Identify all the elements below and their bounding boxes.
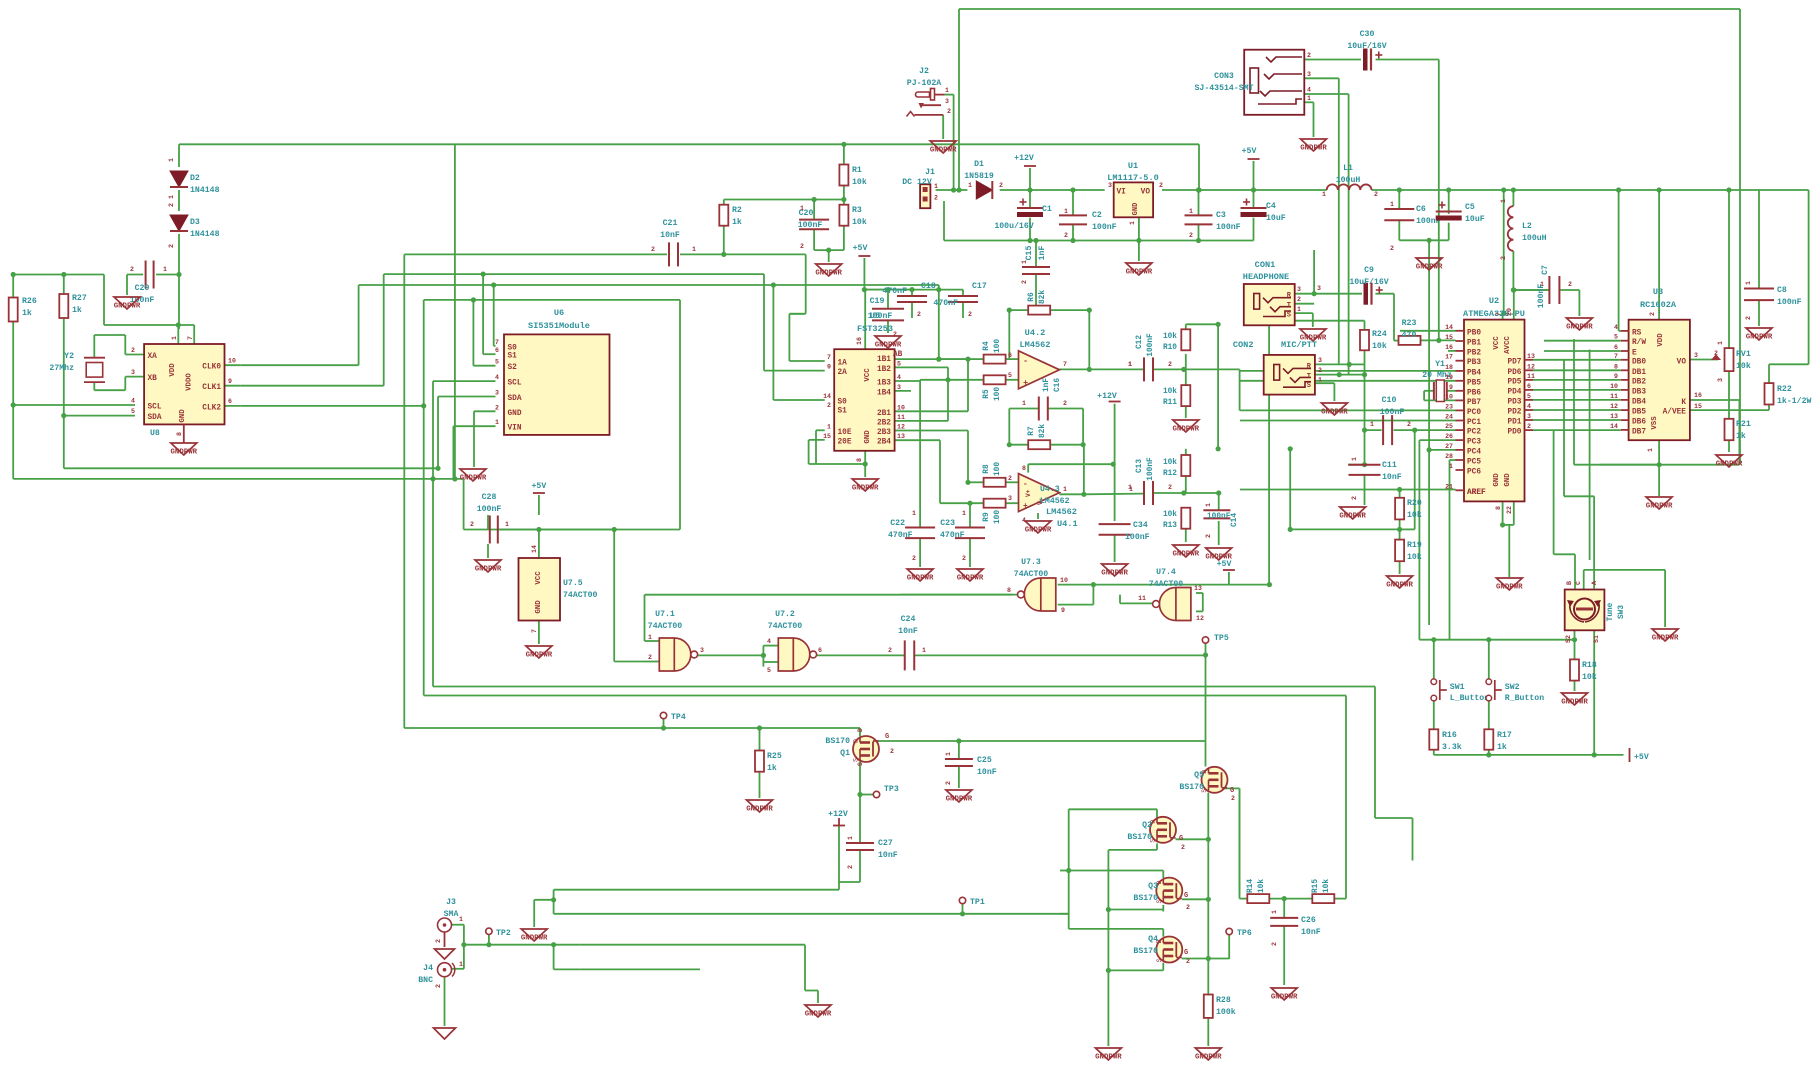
- svg-text:3: 3: [1717, 378, 1724, 382]
- svg-text:SI5351Module: SI5351Module: [528, 321, 590, 331]
- svg-text:R6: R6: [1028, 292, 1036, 302]
- svg-text:CON3: CON3: [1214, 72, 1234, 81]
- svg-text:SDA: SDA: [148, 414, 162, 422]
- svg-text:DB7: DB7: [1632, 428, 1646, 436]
- svg-text:2: 2: [470, 521, 474, 528]
- svg-text:C12: C12: [1136, 335, 1144, 349]
- svg-text:1k: 1k: [767, 763, 777, 773]
- svg-text:GNDPWR: GNDPWR: [1416, 264, 1443, 272]
- svg-text:10k: 10k: [852, 217, 867, 227]
- svg-text:16: 16: [1694, 392, 1702, 399]
- svg-text:CON1: CON1: [1255, 260, 1276, 270]
- svg-text:C11: C11: [1382, 461, 1397, 470]
- svg-text:2: 2: [1714, 350, 1718, 357]
- svg-text:1: 1: [459, 916, 463, 923]
- svg-text:GNDPWR: GNDPWR: [1746, 334, 1773, 342]
- svg-text:20E: 20E: [838, 438, 852, 446]
- svg-text:FST3253: FST3253: [857, 324, 893, 334]
- svg-text:3: 3: [1527, 413, 1531, 420]
- svg-text:VO: VO: [1141, 189, 1151, 197]
- svg-text:1: 1: [1128, 484, 1132, 491]
- svg-text:PD6: PD6: [1507, 369, 1521, 377]
- svg-text:3: 3: [897, 384, 901, 391]
- svg-text:S2: S2: [508, 364, 518, 372]
- svg-text:+5V: +5V: [1242, 147, 1257, 156]
- svg-text:82k: 82k: [1039, 290, 1047, 304]
- svg-text:DB0: DB0: [1632, 358, 1646, 366]
- svg-text:S2: S2: [1565, 635, 1572, 643]
- svg-text:XA: XA: [148, 353, 158, 361]
- svg-text:1nF: 1nF: [1038, 246, 1047, 261]
- svg-text:13: 13: [1527, 353, 1535, 360]
- svg-text:G: G: [1184, 949, 1188, 957]
- svg-text:11: 11: [897, 414, 905, 421]
- svg-text:GNDPWR: GNDPWR: [1271, 994, 1298, 1002]
- svg-text:1: 1: [1271, 910, 1278, 914]
- svg-text:7: 7: [1614, 353, 1618, 360]
- svg-text:2B3: 2B3: [877, 429, 891, 437]
- svg-text:1k: 1k: [1497, 742, 1507, 752]
- svg-text:U1: U1: [1128, 161, 1138, 171]
- svg-text:7: 7: [531, 629, 538, 633]
- svg-text:SDA: SDA: [508, 395, 522, 403]
- svg-text:T: T: [1307, 373, 1311, 381]
- svg-text:2: 2: [1407, 421, 1411, 428]
- svg-text:U7.2: U7.2: [775, 610, 795, 619]
- svg-text:R7: R7: [1028, 426, 1036, 436]
- svg-text:2: 2: [800, 243, 804, 250]
- svg-text:C3: C3: [1216, 211, 1226, 220]
- svg-text:GNDPWR: GNDPWR: [170, 449, 197, 457]
- svg-text:+5V: +5V: [1217, 560, 1232, 569]
- svg-text:2: 2: [648, 654, 652, 661]
- svg-text:Y1: Y1: [1435, 360, 1445, 369]
- svg-text:5: 5: [495, 359, 499, 366]
- svg-text:U4.2: U4.2: [1025, 328, 1046, 338]
- svg-text:D3: D3: [190, 218, 200, 227]
- svg-text:G: G: [1179, 835, 1183, 843]
- svg-text:K: K: [1681, 399, 1686, 407]
- svg-text:8: 8: [1614, 363, 1618, 370]
- svg-text:D: D: [857, 728, 864, 732]
- svg-text:PB4: PB4: [1467, 369, 1481, 377]
- svg-text:TP4: TP4: [671, 713, 686, 722]
- svg-text:L1: L1: [1343, 164, 1353, 173]
- svg-text:U3: U3: [1653, 287, 1663, 297]
- svg-text:9: 9: [1449, 384, 1453, 391]
- svg-text:28: 28: [1445, 453, 1453, 460]
- svg-text:1: 1: [1063, 486, 1067, 493]
- svg-text:+12V: +12V: [1014, 154, 1034, 163]
- svg-text:PD2: PD2: [1507, 409, 1521, 417]
- svg-text:3: 3: [700, 647, 704, 654]
- svg-text:10k: 10k: [852, 177, 867, 187]
- svg-text:VCC: VCC: [535, 571, 543, 585]
- svg-text:R23: R23: [1402, 319, 1417, 328]
- svg-text:100uH: 100uH: [1522, 234, 1547, 243]
- svg-text:-: -: [1023, 481, 1028, 489]
- svg-text:1: 1: [847, 836, 854, 840]
- svg-text:J3: J3: [446, 898, 456, 907]
- svg-text:100nF: 100nF: [1207, 513, 1231, 521]
- svg-text:1: 1: [1318, 377, 1322, 384]
- svg-text:4: 4: [897, 374, 901, 381]
- svg-text:RV1: RV1: [1736, 350, 1751, 359]
- svg-text:2: 2: [1318, 367, 1322, 374]
- svg-text:PD5: PD5: [1507, 378, 1521, 386]
- svg-text:1: 1: [968, 182, 972, 189]
- svg-text:2: 2: [1231, 795, 1235, 802]
- svg-text:10E: 10E: [838, 429, 852, 437]
- svg-text:+12V: +12V: [1097, 392, 1117, 401]
- svg-text:GND: GND: [1493, 473, 1501, 487]
- svg-text:Q1: Q1: [840, 749, 850, 758]
- svg-text:10nF: 10nF: [1301, 928, 1321, 937]
- svg-text:4: 4: [1307, 87, 1311, 94]
- svg-text:R27: R27: [72, 294, 87, 303]
- svg-text:1: 1: [1189, 208, 1193, 215]
- svg-text:1k: 1k: [22, 308, 32, 318]
- svg-text:J4: J4: [423, 964, 433, 973]
- svg-text:10uF: 10uF: [1266, 214, 1286, 223]
- svg-text:+: +: [1023, 378, 1028, 388]
- svg-text:7: 7: [827, 354, 831, 361]
- svg-text:GNDPWR: GNDPWR: [1025, 527, 1052, 535]
- svg-text:2: 2: [1374, 191, 1378, 198]
- svg-text:C4: C4: [1266, 202, 1276, 211]
- svg-text:2: 2: [1297, 296, 1301, 303]
- svg-text:1: 1: [168, 195, 175, 199]
- svg-text:1: 1: [692, 246, 696, 253]
- svg-text:2: 2: [1271, 942, 1278, 946]
- svg-text:R4: R4: [983, 341, 991, 351]
- svg-text:GNDPWR: GNDPWR: [852, 485, 879, 493]
- svg-text:GNDPWR: GNDPWR: [1321, 409, 1348, 417]
- svg-text:GNDPWR: GNDPWR: [1652, 635, 1679, 643]
- svg-text:PD7: PD7: [1507, 358, 1521, 366]
- svg-text:AVCC: AVCC: [1504, 336, 1512, 354]
- svg-text:2: 2: [1649, 312, 1656, 316]
- svg-text:11: 11: [1527, 373, 1535, 380]
- svg-text:DB2: DB2: [1632, 378, 1646, 386]
- svg-text:1: 1: [1449, 463, 1453, 470]
- svg-text:R3: R3: [852, 206, 862, 215]
- svg-text:12: 12: [1196, 615, 1204, 622]
- svg-text:5: 5: [1527, 393, 1531, 400]
- svg-text:13: 13: [1194, 585, 1202, 592]
- svg-text:T: T: [1287, 302, 1291, 310]
- svg-text:GND: GND: [179, 409, 187, 423]
- svg-text:GNDPWR: GNDPWR: [930, 147, 957, 155]
- svg-text:100: 100: [994, 510, 1002, 524]
- svg-text:A/VEE: A/VEE: [1663, 409, 1687, 417]
- svg-text:GNDPWR: GNDPWR: [1126, 269, 1153, 277]
- svg-text:2: 2: [1159, 182, 1163, 189]
- svg-text:C21: C21: [663, 219, 678, 228]
- svg-text:C29: C29: [135, 284, 150, 293]
- svg-text:100nF: 100nF: [1147, 333, 1155, 357]
- svg-text:GNDPWR: GNDPWR: [1646, 503, 1673, 511]
- svg-text:3: 3: [1297, 286, 1301, 293]
- svg-text:2: 2: [1205, 534, 1212, 538]
- svg-text:GNDPWR: GNDPWR: [946, 796, 973, 804]
- svg-text:PC6: PC6: [1467, 469, 1481, 477]
- svg-text:PC2: PC2: [1467, 429, 1481, 437]
- svg-text:2: 2: [1189, 232, 1193, 239]
- svg-text:S0: S0: [838, 399, 848, 407]
- svg-text:G: G: [1230, 787, 1234, 795]
- svg-text:R15: R15: [1312, 879, 1320, 893]
- svg-text:1: 1: [1297, 306, 1301, 313]
- svg-text:74ACT00: 74ACT00: [648, 622, 682, 631]
- svg-text:1N5819: 1N5819: [964, 172, 994, 181]
- svg-text:14: 14: [1445, 324, 1453, 331]
- svg-text:8: 8: [856, 458, 863, 462]
- svg-text:1: 1: [1500, 199, 1507, 203]
- svg-text:SCL: SCL: [508, 380, 522, 388]
- svg-text:2: 2: [1021, 280, 1028, 284]
- svg-text:3: 3: [1318, 357, 1322, 364]
- svg-text:4: 4: [1527, 403, 1531, 410]
- svg-text:19: 19: [1445, 374, 1453, 381]
- svg-text:1: 1: [1540, 281, 1544, 288]
- svg-text:2: 2: [1186, 904, 1190, 911]
- svg-text:C15: C15: [1025, 246, 1034, 261]
- svg-text:SJ-43514-SMT: SJ-43514-SMT: [1195, 84, 1254, 93]
- svg-text:-: -: [1023, 356, 1028, 366]
- svg-text:10k: 10k: [1407, 510, 1422, 520]
- svg-text:3: 3: [1108, 182, 1112, 189]
- svg-text:22: 22: [1506, 506, 1513, 514]
- svg-text:GNDPWR: GNDPWR: [1300, 145, 1327, 153]
- svg-text:E: E: [1632, 350, 1637, 358]
- svg-text:2: 2: [888, 647, 892, 654]
- svg-text:100nF: 100nF: [1125, 533, 1150, 542]
- svg-text:R26: R26: [22, 297, 37, 306]
- svg-text:GNDPWR: GNDPWR: [815, 270, 842, 278]
- svg-text:15: 15: [1445, 334, 1453, 341]
- svg-text:3: 3: [1307, 71, 1311, 78]
- svg-text:C17: C17: [972, 282, 987, 291]
- svg-text:470nF: 470nF: [882, 287, 907, 296]
- svg-text:1k-1/2W: 1k-1/2W: [1777, 396, 1811, 406]
- svg-text:2: 2: [1745, 316, 1752, 320]
- svg-text:2: 2: [962, 555, 966, 562]
- svg-text:GNDPWR: GNDPWR: [1195, 1054, 1222, 1062]
- svg-text:3: 3: [945, 98, 949, 105]
- svg-text:S: S: [1156, 958, 1163, 962]
- svg-text:Q5: Q5: [1194, 771, 1204, 780]
- svg-text:S: S: [857, 762, 864, 766]
- svg-text:27: 27: [1445, 443, 1453, 450]
- svg-text:S: S: [1287, 312, 1291, 320]
- svg-text:18: 18: [1445, 364, 1453, 371]
- svg-text:GNDPWR: GNDPWR: [1566, 324, 1593, 332]
- svg-text:2: 2: [1181, 844, 1185, 851]
- svg-text:R25: R25: [767, 752, 782, 761]
- svg-text:1B2: 1B2: [877, 366, 891, 374]
- svg-text:R2: R2: [732, 206, 742, 215]
- svg-text:1: 1: [1021, 260, 1028, 264]
- svg-text:14: 14: [823, 393, 831, 400]
- svg-text:1: 1: [912, 510, 916, 517]
- svg-text:1: 1: [945, 87, 949, 94]
- svg-text:1N4148: 1N4148: [190, 186, 220, 195]
- svg-text:U4.3: U4.3: [1040, 485, 1060, 494]
- svg-text:DB3: DB3: [1632, 388, 1646, 396]
- svg-text:U8: U8: [150, 429, 160, 438]
- svg-text:U2: U2: [1489, 296, 1499, 306]
- svg-text:C8: C8: [1777, 286, 1787, 295]
- svg-text:8: 8: [1007, 587, 1011, 594]
- svg-text:1A: 1A: [838, 360, 848, 368]
- svg-text:BS170: BS170: [1127, 833, 1152, 842]
- svg-text:VDD: VDD: [1657, 333, 1665, 347]
- svg-text:10nF: 10nF: [878, 851, 898, 860]
- svg-text:2: 2: [1064, 232, 1068, 239]
- svg-text:BS170: BS170: [825, 737, 850, 746]
- svg-text:1: 1: [1717, 341, 1724, 345]
- svg-text:2: 2: [827, 402, 831, 409]
- svg-text:B: B: [1566, 581, 1573, 585]
- svg-text:1: 1: [1351, 457, 1358, 461]
- svg-text:GNDPWR: GNDPWR: [875, 342, 902, 350]
- svg-text:C24: C24: [901, 615, 916, 624]
- svg-text:R28: R28: [1216, 996, 1231, 1005]
- svg-text:12: 12: [897, 424, 905, 431]
- svg-text:1: 1: [945, 752, 952, 756]
- svg-text:5: 5: [1614, 334, 1618, 341]
- svg-text:10nF: 10nF: [660, 231, 680, 240]
- svg-text:1: 1: [1205, 503, 1212, 507]
- svg-text:1: 1: [934, 183, 938, 190]
- svg-text:C14: C14: [1231, 513, 1239, 527]
- svg-text:4: 4: [1614, 324, 1618, 331]
- svg-text:1: 1: [1022, 400, 1026, 407]
- svg-text:S1: S1: [1593, 635, 1600, 643]
- svg-text:4: 4: [767, 638, 771, 645]
- svg-text:2: 2: [847, 865, 854, 869]
- svg-text:2: 2: [1307, 52, 1311, 59]
- svg-text:25: 25: [1445, 423, 1453, 430]
- svg-text:8: 8: [1495, 506, 1502, 510]
- svg-text:10: 10: [897, 404, 905, 411]
- svg-text:L2: L2: [1522, 222, 1532, 231]
- svg-text:10k: 10k: [1372, 341, 1387, 351]
- svg-text:10uF/16V: 10uF/16V: [1347, 41, 1386, 51]
- svg-text:GNDPWR: GNDPWR: [521, 935, 548, 943]
- svg-text:S1: S1: [508, 353, 518, 361]
- svg-text:C: C: [1575, 581, 1582, 585]
- svg-text:SCL: SCL: [148, 404, 162, 412]
- svg-text:PD1: PD1: [1507, 419, 1521, 427]
- svg-text:6: 6: [228, 398, 232, 405]
- svg-text:U7.3: U7.3: [1021, 558, 1041, 567]
- svg-text:8: 8: [176, 432, 183, 436]
- svg-text:12: 12: [1527, 363, 1535, 370]
- svg-text:1: 1: [168, 158, 175, 162]
- svg-text:2: 2: [435, 984, 442, 988]
- svg-text:1: 1: [1390, 201, 1394, 208]
- svg-text:1k: 1k: [72, 305, 82, 315]
- svg-text:2: 2: [168, 244, 175, 248]
- svg-text:AREF: AREF: [1467, 489, 1486, 497]
- svg-text:10: 10: [1610, 383, 1618, 390]
- svg-text:20: 20: [1506, 308, 1513, 316]
- svg-text:PC5: PC5: [1467, 459, 1481, 467]
- svg-text:10: 10: [1060, 577, 1068, 584]
- svg-text:1: 1: [922, 647, 926, 654]
- svg-text:XB: XB: [148, 375, 158, 383]
- svg-text:R11: R11: [1163, 399, 1177, 407]
- svg-text:7: 7: [187, 336, 194, 340]
- svg-text:1: 1: [1322, 191, 1326, 198]
- svg-text:GNDPWR: GNDPWR: [1172, 551, 1199, 559]
- svg-text:24: 24: [1445, 414, 1453, 421]
- svg-text:C1: C1: [1042, 205, 1052, 214]
- svg-text:GNDPWR: GNDPWR: [1716, 461, 1743, 469]
- svg-text:GNDPWR: GNDPWR: [907, 575, 934, 583]
- svg-text:VI: VI: [1117, 189, 1127, 197]
- svg-text:R9: R9: [983, 512, 991, 522]
- svg-text:R16: R16: [1442, 731, 1457, 740]
- svg-text:TP2: TP2: [496, 929, 511, 938]
- svg-text:10: 10: [228, 358, 236, 365]
- svg-text:GNDPWR: GNDPWR: [114, 303, 141, 311]
- svg-text:100: 100: [994, 462, 1002, 476]
- svg-text:D: D: [853, 739, 860, 743]
- svg-text:HEADPHONE: HEADPHONE: [1243, 272, 1289, 282]
- svg-text:C19: C19: [870, 297, 885, 306]
- svg-text:PB5: PB5: [1467, 379, 1481, 387]
- svg-text:PD3: PD3: [1507, 398, 1521, 406]
- svg-text:C9: C9: [1364, 266, 1374, 275]
- svg-text:1: 1: [163, 266, 167, 273]
- svg-text:21: 21: [1445, 483, 1453, 490]
- svg-text:100k: 100k: [1216, 1007, 1236, 1017]
- svg-text:10k: 10k: [1163, 333, 1177, 341]
- svg-text:S0: S0: [508, 344, 518, 352]
- svg-text:C22: C22: [890, 519, 905, 528]
- svg-text:9: 9: [1614, 373, 1618, 380]
- svg-text:BS170: BS170: [1133, 894, 1158, 903]
- svg-text:R21: R21: [1736, 420, 1751, 429]
- svg-text:D2: D2: [190, 174, 200, 183]
- svg-text:D1: D1: [974, 160, 984, 169]
- svg-text:PB6: PB6: [1467, 389, 1481, 397]
- svg-text:2B1: 2B1: [877, 410, 891, 418]
- svg-text:J1: J1: [925, 168, 935, 177]
- svg-text:GNDPWR: GNDPWR: [805, 1011, 832, 1019]
- svg-text:14: 14: [531, 545, 538, 553]
- svg-text:100nF: 100nF: [868, 312, 893, 321]
- svg-text:PB1: PB1: [1467, 340, 1481, 348]
- svg-text:5: 5: [897, 360, 901, 367]
- svg-text:100nF: 100nF: [1380, 408, 1405, 417]
- svg-text:5: 5: [131, 408, 135, 415]
- svg-text:PJ-102A: PJ-102A: [907, 79, 941, 88]
- svg-text:DC 12V: DC 12V: [902, 178, 932, 187]
- svg-text:100nF: 100nF: [1092, 223, 1117, 232]
- svg-text:GNDPWR: GNDPWR: [1496, 584, 1523, 592]
- svg-text:3: 3: [495, 390, 499, 397]
- svg-text:10k: 10k: [1736, 361, 1751, 371]
- svg-text:3: 3: [1694, 352, 1698, 359]
- svg-text:VDDO: VDDO: [186, 373, 194, 391]
- svg-text:10k: 10k: [1163, 511, 1177, 519]
- svg-text:7: 7: [1063, 361, 1067, 368]
- svg-text:GNDPWR: GNDPWR: [1101, 570, 1128, 578]
